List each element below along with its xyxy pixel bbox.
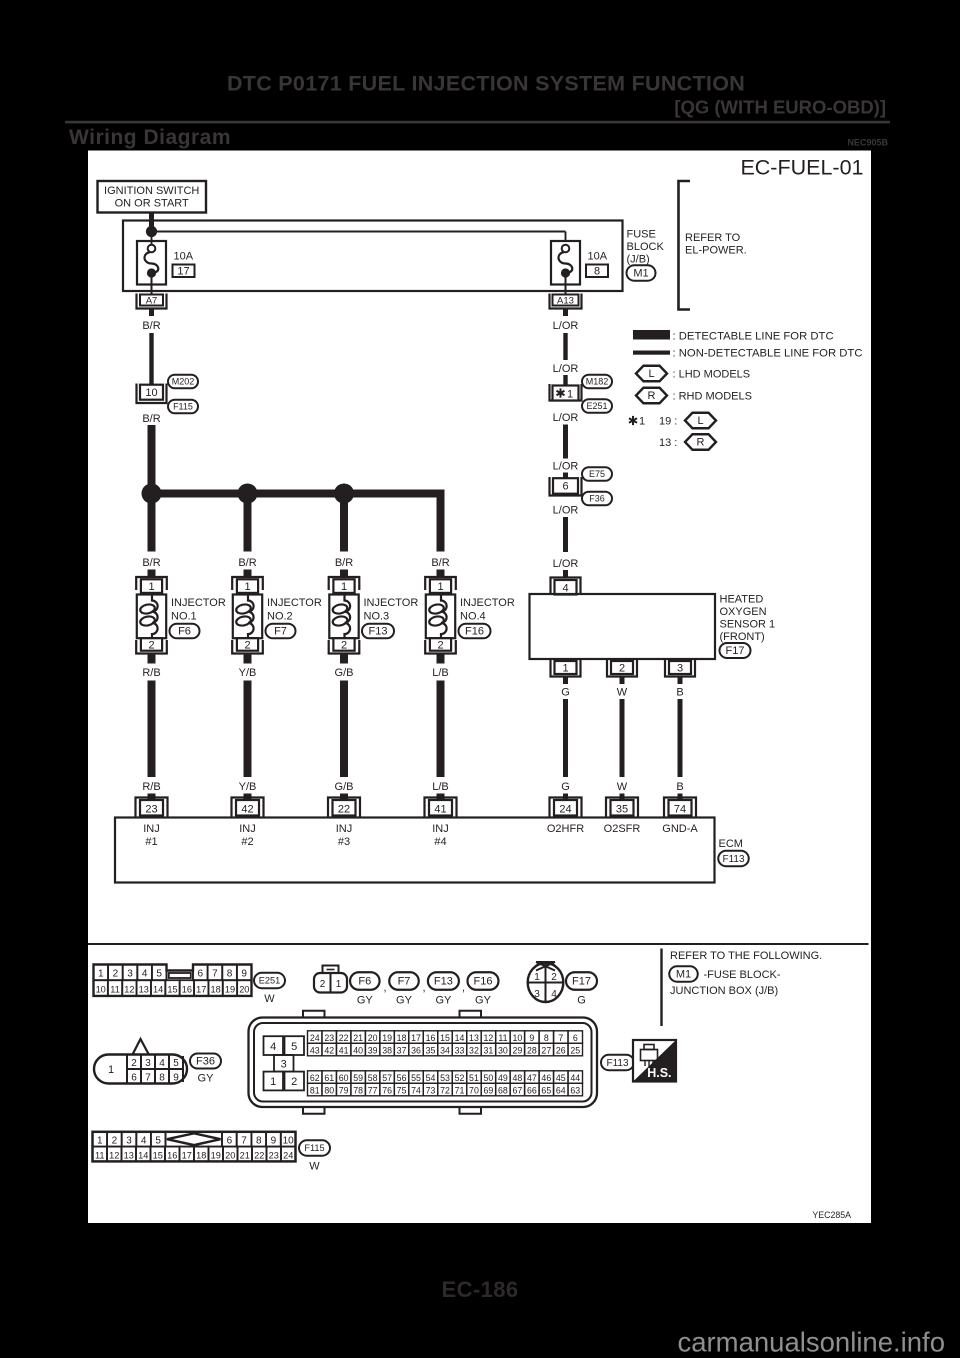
svg-text:43: 43 — [310, 1045, 320, 1055]
svg-text:10A: 10A — [588, 251, 608, 263]
wire stub below injector NO.4 — [437, 654, 445, 664]
svg-text:GND-A: GND-A — [662, 823, 698, 835]
wire stub to *1 — [563, 375, 567, 386]
svg-text:18: 18 — [210, 984, 220, 994]
svg-text:B/R: B/R — [238, 557, 256, 569]
svg-text:SENSOR 1: SENSOR 1 — [720, 619, 776, 631]
bus wire to injectors — [152, 490, 445, 552]
note 13 RHD — [659, 434, 716, 450]
connector F16 oval label — [468, 972, 499, 1006]
svg-text:38: 38 — [382, 1045, 392, 1055]
svg-text:4: 4 — [142, 969, 148, 980]
svg-text:41: 41 — [339, 1045, 349, 1055]
svg-text:B: B — [676, 781, 683, 793]
svg-text:15: 15 — [167, 984, 177, 994]
connector E251 oval label — [254, 973, 285, 1005]
wire stub to connector 6 — [563, 473, 568, 479]
svg-text:23: 23 — [269, 1150, 279, 1160]
svg-text:F36: F36 — [589, 494, 605, 504]
svg-text:44: 44 — [570, 1073, 580, 1083]
svg-text:1: 1 — [98, 969, 104, 980]
svg-text:50: 50 — [484, 1073, 494, 1083]
connector 10 — [137, 384, 167, 404]
svg-text:30: 30 — [498, 1045, 508, 1055]
svg-text:19: 19 — [211, 1150, 221, 1160]
injector NO.4 labels — [460, 597, 515, 623]
svg-text:NEC905B: NEC905B — [847, 138, 888, 148]
svg-text:24: 24 — [310, 1033, 320, 1043]
svg-text:M1: M1 — [676, 969, 691, 981]
svg-text:1: 1 — [336, 979, 342, 990]
svg-text:ON OR START: ON OR START — [115, 198, 189, 210]
svg-text:8: 8 — [159, 1073, 165, 1084]
svg-text:18: 18 — [196, 1150, 206, 1160]
svg-text:34: 34 — [440, 1045, 450, 1055]
svg-text:2: 2 — [437, 639, 443, 651]
svg-text:75: 75 — [397, 1085, 407, 1095]
svg-text:79: 79 — [339, 1085, 349, 1095]
svg-text:35: 35 — [616, 803, 628, 815]
svg-text:B/R: B/R — [142, 413, 160, 425]
svg-text:E251: E251 — [586, 401, 607, 411]
svg-text:REFER TO: REFER TO — [685, 232, 741, 244]
fuse 8 10A — [551, 241, 608, 285]
svg-text:10A: 10A — [174, 251, 194, 263]
wire sensor pin 3 to ECM — [678, 699, 683, 777]
svg-text:G/B: G/B — [335, 781, 354, 793]
svg-text:42: 42 — [241, 803, 253, 815]
svg-text:G: G — [577, 995, 586, 1007]
svg-text:17: 17 — [182, 1150, 192, 1160]
svg-text:GY: GY — [357, 995, 374, 1007]
svg-text:L/OR: L/OR — [553, 320, 579, 332]
svg-text:NO.2: NO.2 — [267, 611, 293, 623]
svg-text:5: 5 — [291, 1041, 297, 1053]
wire label B — [676, 687, 683, 699]
svg-text:31: 31 — [484, 1045, 494, 1055]
wire stub into ECM pin B — [678, 794, 683, 802]
svg-text:8: 8 — [594, 266, 600, 278]
svg-text:55: 55 — [411, 1073, 421, 1083]
svg-text:JUNCTION BOX (J/B): JUNCTION BOX (J/B) — [670, 985, 778, 997]
sensor labels — [720, 594, 776, 644]
connector F16 oval — [459, 624, 491, 639]
wire label Y/B lower — [239, 781, 257, 793]
svg-text:4: 4 — [551, 989, 557, 1000]
svg-text:F13: F13 — [369, 626, 388, 638]
svg-text:6: 6 — [131, 1073, 137, 1084]
svg-text:G: G — [561, 781, 570, 793]
svg-text:L: L — [697, 415, 703, 427]
svg-text:64: 64 — [556, 1085, 566, 1095]
svg-text:DTC P0171 FUEL INJECTION SYSTE: DTC P0171 FUEL INJECTION SYSTEM FUNCTION — [227, 72, 745, 96]
svg-text:9: 9 — [173, 1073, 179, 1084]
svg-text:EC-FUEL-01: EC-FUEL-01 — [740, 156, 863, 180]
wire stub into ECM pin — [437, 794, 445, 802]
wire stub below injector NO.1 — [148, 654, 156, 664]
svg-text:16: 16 — [167, 1150, 177, 1160]
svg-text:(FRONT): (FRONT) — [720, 631, 765, 643]
svg-text:5: 5 — [155, 1136, 161, 1147]
M1 fuse block note — [669, 966, 781, 982]
legend detectable line bar — [633, 330, 834, 343]
wire label L/OR above sensor — [553, 558, 579, 570]
wire label G/B lower — [335, 781, 354, 793]
svg-text:E251: E251 — [259, 976, 280, 986]
svg-text:20: 20 — [368, 1033, 378, 1043]
refer to following divider — [660, 949, 662, 1027]
svg-text:L/B: L/B — [432, 667, 449, 679]
connector F6 oval label — [350, 972, 387, 1006]
svg-text:W: W — [617, 781, 628, 793]
wire label B/R injector NO.2 — [238, 557, 256, 569]
svg-text:3: 3 — [534, 989, 540, 1000]
svg-text:21: 21 — [353, 1033, 363, 1043]
svg-text:69: 69 — [484, 1085, 494, 1095]
svg-text:M1: M1 — [633, 268, 648, 280]
connector F17 pin view — [528, 962, 564, 1002]
svg-text:65: 65 — [541, 1085, 551, 1095]
svg-text:REFER TO THE FOLLOWING.: REFER TO THE FOLLOWING. — [670, 950, 822, 962]
connector F7 oval — [266, 624, 296, 639]
wire stub above injector NO.3 — [340, 570, 348, 579]
svg-text:IGNITION SWITCH: IGNITION SWITCH — [104, 185, 199, 197]
svg-text:49: 49 — [498, 1073, 508, 1083]
wire stub above injector NO.4 — [437, 570, 445, 579]
svg-text:27: 27 — [541, 1045, 551, 1055]
sensor pin 1 — [551, 660, 581, 677]
svg-text:HEATED: HEATED — [720, 594, 764, 606]
svg-text:1: 1 — [244, 581, 250, 593]
svg-text:#1: #1 — [145, 836, 157, 848]
svg-text:E75: E75 — [589, 469, 605, 479]
svg-text:24: 24 — [283, 1150, 293, 1160]
svg-text:F17: F17 — [572, 976, 591, 988]
svg-text:41: 41 — [434, 803, 446, 815]
svg-text:INJECTOR: INJECTOR — [364, 597, 419, 609]
section heading Wiring Diagram — [69, 126, 231, 149]
sensor pin 4 — [551, 578, 581, 595]
connector F115 oval — [168, 400, 198, 414]
header rule — [65, 121, 890, 124]
svg-text:L: L — [648, 368, 654, 380]
svg-text:5: 5 — [156, 969, 162, 980]
connector A7 — [137, 294, 167, 309]
svg-text:1: 1 — [639, 416, 645, 428]
svg-text:10: 10 — [96, 984, 106, 994]
svg-text:59: 59 — [353, 1073, 363, 1083]
svg-text:7: 7 — [212, 969, 218, 980]
wire stub above injector NO.2 — [244, 570, 252, 579]
svg-text:40: 40 — [353, 1045, 363, 1055]
svg-text:G: G — [561, 687, 570, 699]
refer to el-power bracket — [679, 181, 747, 310]
svg-text:13: 13 — [139, 984, 149, 994]
svg-text:7: 7 — [558, 1033, 563, 1043]
wire fuse 8 to A13 — [565, 273, 567, 295]
svg-text:F113: F113 — [722, 854, 744, 865]
refer to following text — [670, 950, 822, 962]
connector M202 oval — [168, 375, 198, 389]
svg-text:,: , — [423, 982, 426, 994]
svg-text:10: 10 — [283, 1136, 295, 1147]
wire label B/R — [142, 320, 160, 332]
svg-text:-FUSE BLOCK-: -FUSE BLOCK- — [704, 969, 781, 981]
node junction dot at ignition feed — [146, 226, 157, 237]
svg-text:INJECTOR: INJECTOR — [267, 597, 322, 609]
wire label L/OR — [553, 320, 579, 332]
svg-text:1: 1 — [567, 389, 573, 401]
ECM connector grid upper — [308, 1031, 583, 1056]
connector F113 oval — [718, 851, 749, 867]
H.S. inspection icon — [633, 1040, 676, 1082]
svg-text:EC-186: EC-186 — [442, 1277, 519, 1302]
svg-text:3: 3 — [126, 1136, 132, 1147]
svg-text:A13: A13 — [557, 296, 574, 307]
ECM signal O2HFR — [547, 823, 584, 835]
svg-text:H.S.: H.S. — [647, 1066, 671, 1080]
svg-text:R: R — [697, 437, 705, 449]
svg-text:3: 3 — [677, 663, 683, 675]
svg-text:F115: F115 — [304, 1143, 324, 1153]
ECM connector left pin group — [264, 1036, 305, 1090]
wire stub into ECM pin W — [620, 794, 625, 802]
svg-text:4: 4 — [141, 1136, 147, 1147]
svg-text:28: 28 — [527, 1045, 537, 1055]
separator line — [88, 943, 869, 945]
svg-text:G/B: G/B — [335, 667, 354, 679]
svg-text:9: 9 — [271, 1136, 277, 1147]
svg-text:56: 56 — [397, 1073, 407, 1083]
wire ignition switch to fuse block — [149, 213, 154, 232]
svg-text:52: 52 — [455, 1073, 465, 1083]
svg-text:Wiring Diagram: Wiring Diagram — [69, 126, 231, 149]
svg-text:35: 35 — [426, 1045, 436, 1055]
svg-text:19: 19 — [382, 1033, 392, 1043]
svg-text:#2: #2 — [241, 836, 253, 848]
heated oxygen sensor 1 box — [530, 594, 716, 659]
svg-text:2: 2 — [244, 639, 250, 651]
svg-text:OXYGEN: OXYGEN — [720, 606, 767, 618]
sensor pin 3 — [665, 660, 695, 677]
svg-text:16: 16 — [182, 984, 192, 994]
wire label R/B — [142, 667, 160, 679]
connector *1 — [550, 384, 582, 401]
wire label B/R injector NO.3 — [335, 557, 353, 569]
svg-text:2: 2 — [551, 972, 557, 983]
wire label G/B — [335, 667, 354, 679]
wire stub into ECM pin — [244, 794, 252, 802]
svg-text:22: 22 — [338, 803, 350, 815]
svg-text:6: 6 — [227, 1136, 233, 1147]
wire label B/R injector NO.1 — [142, 557, 160, 569]
wire sensor pin 2 to ECM — [620, 699, 625, 777]
svg-text:14: 14 — [455, 1033, 465, 1043]
svg-text:20: 20 — [225, 1150, 235, 1160]
svg-text:GY: GY — [198, 1073, 215, 1085]
svg-text:2: 2 — [113, 969, 119, 980]
svg-text:76: 76 — [382, 1085, 392, 1095]
svg-text:INJ: INJ — [336, 823, 353, 835]
svg-text:1: 1 — [97, 1136, 103, 1147]
svg-text:60: 60 — [339, 1073, 349, 1083]
svg-text:1: 1 — [108, 1064, 114, 1076]
connector E251 pin view — [94, 965, 252, 996]
wire label W lower — [617, 781, 628, 793]
svg-text:: RHD MODELS: : RHD MODELS — [673, 391, 752, 403]
svg-text:36: 36 — [411, 1045, 421, 1055]
svg-text:12: 12 — [124, 984, 134, 994]
svg-text:53: 53 — [440, 1073, 450, 1083]
svg-text:21: 21 — [240, 1150, 250, 1160]
junction box note — [670, 985, 778, 997]
svg-text:,: , — [462, 982, 465, 994]
svg-text:3: 3 — [281, 1059, 287, 1071]
svg-text:15: 15 — [153, 1150, 163, 1160]
svg-text:45: 45 — [556, 1073, 566, 1083]
ECM pin 22 — [328, 798, 360, 818]
svg-text:F113: F113 — [606, 1058, 628, 1069]
connector M1 oval — [627, 265, 656, 281]
svg-text:10: 10 — [145, 387, 157, 399]
ECM label — [719, 838, 743, 850]
svg-text:23: 23 — [145, 803, 157, 815]
svg-text:L/OR: L/OR — [553, 412, 579, 424]
svg-text:F13: F13 — [434, 976, 453, 988]
injector NO.1 — [136, 577, 167, 654]
svg-text:26: 26 — [556, 1045, 566, 1055]
wire stub into ECM pin G — [563, 794, 568, 802]
svg-text:: DETECTABLE LINE FOR DTC: : DETECTABLE LINE FOR DTC — [673, 331, 834, 343]
ignition switch box — [98, 181, 207, 213]
svg-text:F16: F16 — [474, 976, 493, 988]
svg-text:80: 80 — [324, 1085, 334, 1095]
wire label G — [561, 687, 570, 699]
svg-text:17: 17 — [196, 984, 206, 994]
injector 2-pin connector view — [314, 966, 347, 993]
connector F17 oval label — [566, 972, 597, 1006]
connector F17 oval — [720, 643, 751, 658]
svg-text:74: 74 — [411, 1085, 421, 1095]
svg-text:72: 72 — [440, 1085, 450, 1095]
svg-text:4: 4 — [562, 582, 568, 594]
svg-text:2: 2 — [320, 979, 326, 990]
svg-text:19: 19 — [225, 984, 235, 994]
svg-text:16: 16 — [426, 1033, 436, 1043]
svg-text:5: 5 — [173, 1058, 179, 1069]
wire stub below sensor pin 3 — [678, 677, 683, 685]
svg-text:GY: GY — [475, 995, 492, 1007]
svg-text:4: 4 — [159, 1058, 165, 1069]
wire label B lower — [676, 781, 683, 793]
ECM signal INJ#3 — [336, 823, 353, 848]
svg-text:NO.1: NO.1 — [171, 611, 197, 623]
svg-text:13: 13 — [124, 1150, 134, 1160]
svg-text:63: 63 — [570, 1085, 580, 1095]
svg-text:67: 67 — [512, 1085, 522, 1095]
wire A13 to connector *1 — [563, 333, 567, 360]
svg-text:11: 11 — [498, 1033, 507, 1043]
diagram white background — [88, 151, 871, 1224]
svg-text:25: 25 — [570, 1045, 580, 1055]
connector M182 oval — [582, 375, 612, 389]
svg-text:4: 4 — [270, 1041, 276, 1053]
svg-text:62: 62 — [310, 1073, 320, 1083]
svg-text:L/OR: L/OR — [553, 461, 579, 473]
wire label B/R below connector 10 — [142, 413, 160, 425]
svg-text:F6: F6 — [178, 626, 191, 638]
svg-text:1: 1 — [148, 581, 154, 593]
ECM signal INJ#1 — [143, 823, 160, 848]
connector F113 oval label — [601, 1055, 634, 1071]
connector F115 pin view — [93, 1132, 296, 1162]
svg-text:33: 33 — [455, 1045, 465, 1055]
svg-text:BLOCK: BLOCK — [627, 241, 665, 253]
connector A13 — [550, 294, 582, 309]
svg-text:O2SFR: O2SFR — [604, 823, 641, 835]
legend non-detectable line bar — [633, 348, 862, 360]
wire label B/R injector NO.4 — [431, 557, 449, 569]
wire stub to sensor pin 4 — [563, 570, 568, 578]
wire fuse 17 to A7 — [151, 273, 153, 295]
svg-text:7: 7 — [145, 1073, 151, 1084]
svg-text:23: 23 — [324, 1033, 334, 1043]
svg-text:81: 81 — [310, 1085, 320, 1095]
svg-text:: NON-DETECTABLE LINE FOR DTC: : NON-DETECTABLE LINE FOR DTC — [673, 348, 863, 360]
svg-text:2: 2 — [131, 1058, 137, 1069]
svg-text:L/OR: L/OR — [553, 505, 579, 517]
svg-text:54: 54 — [426, 1073, 436, 1083]
ECM pin 74 — [664, 798, 696, 818]
svg-text:8: 8 — [227, 969, 233, 980]
connector E75 oval — [582, 467, 612, 481]
ECM pin 35 — [606, 798, 638, 818]
svg-text:F36: F36 — [196, 1056, 215, 1068]
wire stub below A13 — [563, 309, 568, 317]
svg-text:R/B: R/B — [142, 781, 160, 793]
svg-text:YEC285A: YEC285A — [812, 1210, 851, 1220]
svg-text:14: 14 — [153, 984, 163, 994]
svg-text:14: 14 — [138, 1150, 148, 1160]
injector NO.1 labels — [171, 597, 226, 623]
svg-text:39: 39 — [368, 1045, 378, 1055]
wire label L/B lower — [432, 781, 449, 793]
injector branch wires — [148, 494, 349, 552]
svg-text:ECM: ECM — [719, 838, 743, 850]
ECM pin 42 — [232, 798, 264, 818]
svg-text:B/R: B/R — [335, 557, 353, 569]
connector E251 oval — [582, 399, 612, 413]
ECM pin 24 — [550, 798, 582, 818]
section id code — [847, 138, 888, 148]
svg-text:46: 46 — [541, 1073, 551, 1083]
svg-text:18: 18 — [397, 1033, 407, 1043]
wire stub below injector NO.2 — [244, 654, 252, 664]
svg-text:2: 2 — [341, 639, 347, 651]
svg-text:22: 22 — [254, 1150, 264, 1160]
svg-text:73: 73 — [426, 1085, 436, 1095]
connector F13 oval label — [428, 972, 465, 1006]
drawing code YEC285A — [812, 1210, 851, 1220]
page subtitle — [674, 97, 886, 118]
wire stub below sensor pin 2 — [620, 677, 625, 685]
svg-text:17: 17 — [177, 266, 189, 278]
wire label L/OR below connector 6 — [553, 505, 579, 517]
legend RHD hexagon — [636, 388, 752, 404]
svg-text:W: W — [309, 1161, 320, 1173]
svg-text:GY: GY — [435, 995, 452, 1007]
svg-text:#4: #4 — [434, 836, 446, 848]
